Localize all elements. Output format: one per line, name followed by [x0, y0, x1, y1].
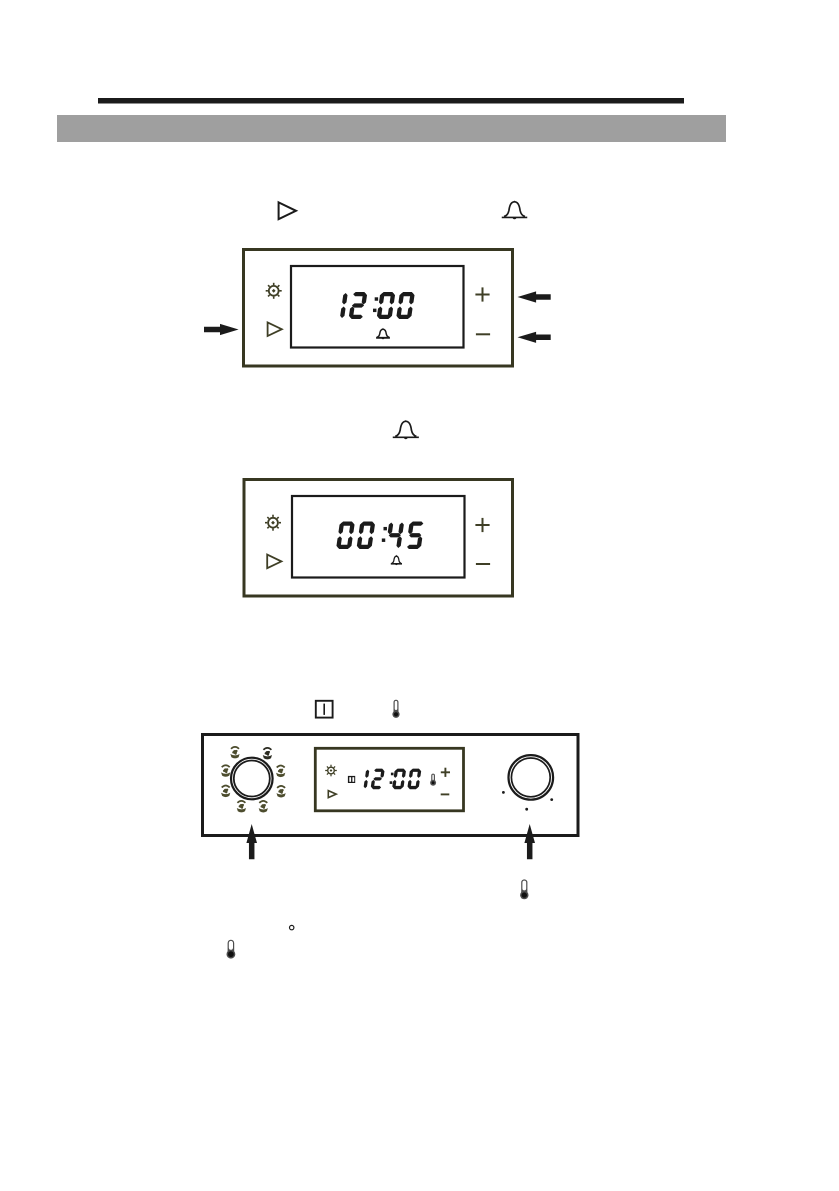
panel 3 thermometer indicator — [431, 774, 435, 783]
panel 3 display window — [315, 748, 463, 811]
panel 1 outer box — [244, 250, 513, 367]
panel 2 minus key — [476, 563, 490, 565]
right knob dot right — [550, 798, 553, 801]
panel 1 sun/auto icon — [269, 286, 279, 296]
panel 3 clock digits 12:00 — [365, 770, 369, 778]
panel 3 play triangle icon — [328, 791, 336, 798]
thermometer icon above panel 3 — [394, 700, 399, 715]
panel 2 outer box — [244, 480, 513, 597]
right knob dot bottom — [525, 808, 528, 811]
oven light switch icon — [316, 701, 333, 718]
panel 1 play triangle icon — [268, 322, 282, 336]
panel 2 play triangle icon — [267, 555, 281, 569]
section title bar — [57, 115, 726, 142]
right knob dot left — [502, 791, 505, 794]
right knob (thermostat) — [509, 755, 554, 800]
thermometer icon right below panel 3 — [521, 879, 527, 895]
panel 2 sun/auto icon — [268, 518, 278, 528]
panel 2 display window — [292, 496, 465, 578]
bell icon (minute minder key) — [504, 202, 525, 217]
panel 3 grill mini icon — [348, 776, 355, 783]
panel 3 outer box — [203, 735, 579, 836]
panel 1 right arrow upper (plus key pointer) — [518, 291, 551, 302]
panel 2 small bell indicator — [392, 556, 402, 563]
panel 2 plus key — [475, 524, 489, 526]
panel 1 left arrow (selector key pointer) — [204, 324, 239, 335]
play triangle icon (timer function key) — [279, 202, 296, 219]
panel 1 small bell indicator — [377, 329, 389, 337]
degree symbol — [290, 925, 294, 929]
left up arrow (function knob pointer) — [246, 824, 257, 859]
panel 1 clock digits 12:00 — [342, 293, 347, 305]
right up arrow (thermostat knob pointer) — [524, 824, 535, 859]
panel 1 plus key — [475, 294, 489, 296]
left knob function glyphs — [231, 747, 239, 749]
header rule — [98, 98, 684, 104]
panel 1 right arrow lower (minus key pointer) — [518, 332, 551, 343]
panel 3 minus key — [441, 793, 450, 795]
panel 2 clock digits 00:45 — [341, 522, 354, 526]
thermometer icon bottom left — [228, 940, 235, 955]
panel 3 plus key — [441, 771, 450, 773]
left knob (function selector) — [231, 758, 273, 800]
bell icon above panel 2 — [395, 421, 416, 436]
panel 1 display window — [291, 266, 464, 348]
panel 1 minus key — [476, 333, 490, 335]
panel 3 sun/auto icon — [328, 767, 335, 774]
